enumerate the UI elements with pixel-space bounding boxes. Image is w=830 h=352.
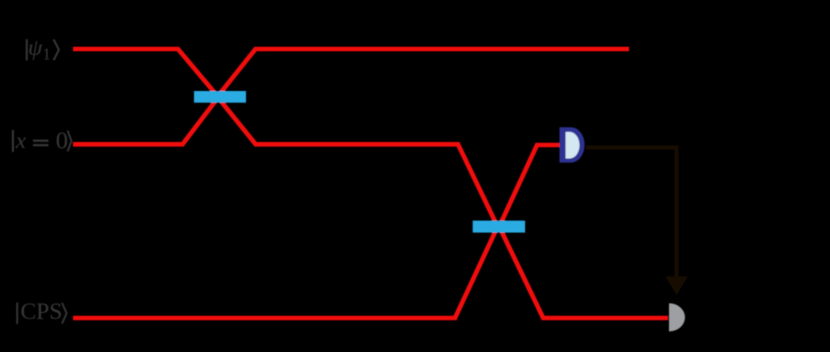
wire: photon path from |psi1> input down through BS1 and BS2 to detector D2	[73, 49, 668, 318]
label |x=0>	[12, 128, 72, 155]
beam splitter BS2	[473, 221, 525, 233]
wire: photon path from |CPS> input up through BS2 to detector D1	[73, 145, 562, 318]
svg-text:x: x	[15, 128, 27, 153]
svg-text:CPS: CPS	[21, 299, 63, 325]
arrowhead of feed-forward line pointing at detector D2	[665, 276, 688, 295]
detector D1 (blue) outer shell	[560, 127, 585, 162]
label |CPS>	[16, 299, 66, 325]
beam splitter BS1	[194, 91, 246, 103]
svg-text:1: 1	[43, 45, 51, 64]
wire: classical feed-forward line from detector D1	[586, 147, 676, 277]
svg-text:ψ: ψ	[28, 35, 43, 60]
label |psi_1>	[26, 35, 59, 64]
detector D1 (blue) inner face	[566, 132, 580, 159]
wire: photon path from |x=0> input up through BS1 to top-right output	[73, 49, 629, 144]
detector D2 (gray)	[669, 303, 685, 331]
svg-text:0: 0	[56, 128, 68, 155]
